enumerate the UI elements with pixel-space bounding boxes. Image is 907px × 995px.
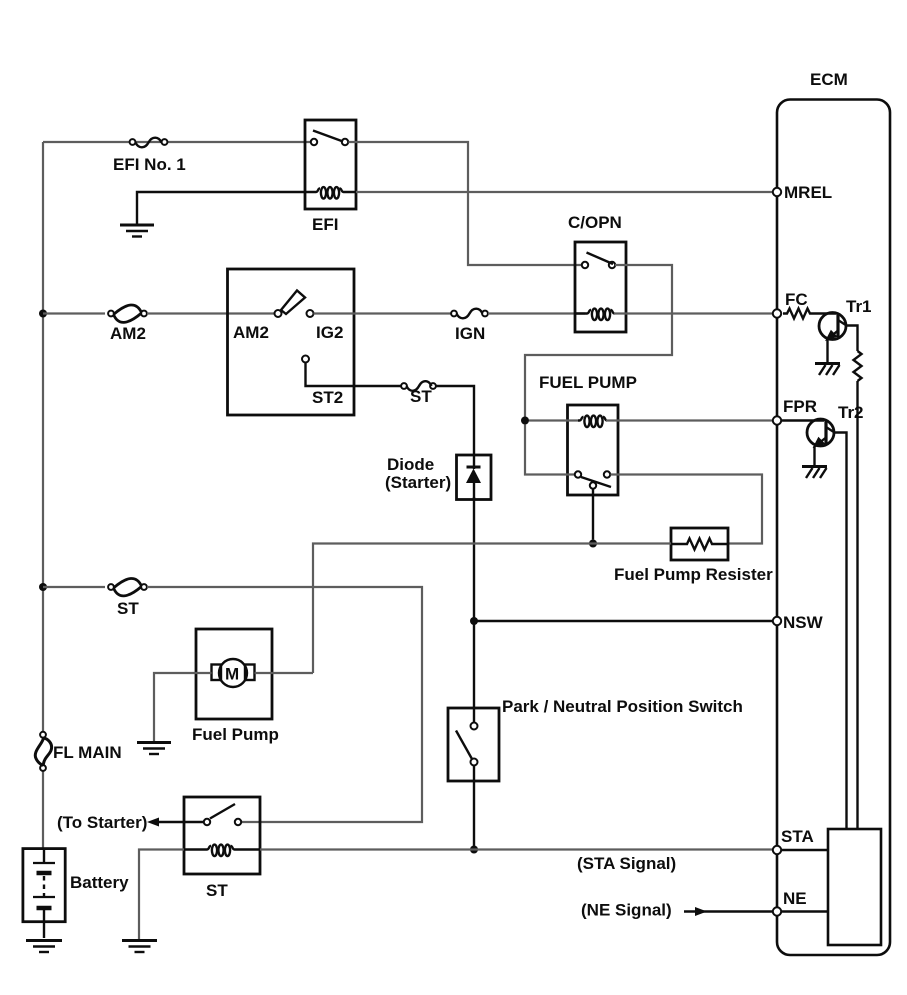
wire feed down to FUEL PUMP switch <box>525 425 574 475</box>
svg-text:FUEL PUMP: FUEL PUMP <box>539 373 637 392</box>
wire resistor down to sub-module <box>856 381 858 829</box>
fuse IGN <box>451 309 488 319</box>
svg-text:IG2: IG2 <box>316 323 343 342</box>
wire Tr2 collector to sub-module <box>834 433 847 830</box>
wire left battery bus vertical (upper part) <box>42 142 44 732</box>
fusible link ST <box>108 578 147 595</box>
svg-text:ST: ST <box>117 599 139 618</box>
wire ST2 contact to ST fuse <box>306 363 402 387</box>
relay FUEL PUMP switch <box>575 471 611 488</box>
svg-text:(Starter): (Starter) <box>385 473 451 492</box>
pin NE <box>773 907 781 915</box>
wire battery bus to ST fusible link <box>43 586 105 588</box>
wire AM2 fusible link to ignition switch <box>147 312 274 314</box>
pin NSW <box>773 617 781 625</box>
fuel pump box <box>196 629 272 719</box>
transistor Tr1 <box>819 313 847 340</box>
relay EFI box <box>305 120 356 209</box>
wire IGN fuse to C/OPN coil <box>488 312 585 314</box>
junction node on battery bus at AM2 line <box>39 310 47 318</box>
relay FUEL PUMP box <box>568 405 619 495</box>
svg-text:ST: ST <box>410 387 432 406</box>
wire C/OPN coil to FC pin <box>614 312 773 314</box>
svg-text:M: M <box>225 665 239 684</box>
ignition switch AM2 contact <box>275 310 282 317</box>
svg-text:FL MAIN: FL MAIN <box>53 743 122 762</box>
svg-text:(NE Signal): (NE Signal) <box>581 901 672 920</box>
svg-text:Fuel Pump Resister: Fuel Pump Resister <box>614 565 773 584</box>
transistor Tr2 <box>807 419 835 446</box>
svg-text:EFI No. 1: EFI No. 1 <box>113 155 186 174</box>
svg-text:IGN: IGN <box>455 324 485 343</box>
motor fuel pump circle <box>219 659 247 687</box>
wire NSW line <box>474 620 773 622</box>
switch Park/Neutral position box <box>448 708 499 781</box>
svg-text:Diode: Diode <box>387 455 434 474</box>
svg-text:(STA Signal): (STA Signal) <box>577 854 676 873</box>
pin FC <box>773 309 781 317</box>
svg-text:Fuel Pump: Fuel Pump <box>192 725 279 744</box>
wire EFI coil to ground <box>137 192 305 224</box>
wire resistor line to fuel pump motor <box>313 544 671 674</box>
wire STA pin to sub-module <box>782 849 829 851</box>
relay C/OPN coil <box>575 309 615 320</box>
wire EFI switch to C/OPN switch <box>349 142 582 265</box>
junction node STA line <box>470 846 478 854</box>
wire IG2 to IGN fuse <box>314 312 452 314</box>
resistor Tr1 collector <box>854 351 862 381</box>
svg-text:ECM: ECM <box>810 70 848 89</box>
wire left battery bus vertical (lower part) <box>42 771 44 850</box>
ground battery <box>26 941 62 953</box>
relay EFI switch <box>311 131 348 146</box>
junction node fuel pump resistor line <box>589 540 597 548</box>
svg-text:AM2: AM2 <box>233 323 269 342</box>
ignition switch IG2 contact <box>307 310 314 317</box>
svg-text:FC: FC <box>785 290 808 309</box>
wire NE pin to sub-module <box>782 910 829 912</box>
svg-text:Park / Neutral Position Switch: Park / Neutral Position Switch <box>502 697 743 716</box>
wire FUEL PUMP switch NO contact to resistor right side <box>611 475 763 544</box>
svg-text:ST: ST <box>206 881 228 900</box>
wire fuel pump motor to resistor line <box>255 672 314 674</box>
ground Tr2 (slash style) <box>802 467 827 479</box>
diode (Starter) box <box>457 455 492 500</box>
svg-text:FPR: FPR <box>783 397 817 416</box>
ignition switch lever <box>281 291 305 315</box>
wire EFI coil to MREL pin <box>356 191 773 193</box>
svg-text:(To Starter): (To Starter) <box>57 813 147 832</box>
svg-text:STA: STA <box>781 827 814 846</box>
fusible link AM2 <box>108 305 147 322</box>
wire FPR pin to Tr2 base <box>782 419 825 421</box>
svg-text:MREL: MREL <box>784 183 832 202</box>
wire ST fuse to diode <box>436 386 474 454</box>
junction node on battery bus at ST line <box>39 583 47 591</box>
ground EFI relay coil <box>120 225 154 237</box>
junction node FUEL PUMP coil feed <box>521 417 529 425</box>
sub-module box inside ECM <box>828 829 881 945</box>
svg-text:NSW: NSW <box>783 613 824 632</box>
wire battery bus to AM2 fusible link <box>43 312 105 314</box>
wire C/OPN switch to FUEL PUMP relay feed <box>525 265 672 417</box>
wire diode down to NSW node and P/N switch <box>473 497 475 723</box>
relay ST box <box>184 797 260 874</box>
ground ST relay coil <box>122 941 157 953</box>
wire Tr1 collector with resistor to sub-module <box>845 326 858 352</box>
svg-text:C/OPN: C/OPN <box>568 213 622 232</box>
wire/arrow NE signal to NE pin <box>684 907 773 916</box>
ground fuel pump <box>137 743 171 755</box>
ground Tr1 (slash style) <box>815 364 840 376</box>
wire top feed from battery bus to EFI relay <box>43 141 311 143</box>
motor fuel pump brushes <box>212 665 222 681</box>
wire FUEL PUMP coil to FPR pin <box>606 419 773 421</box>
wire ST relay coil to ground <box>139 850 184 940</box>
fusible link FL MAIN <box>35 732 51 771</box>
ignition switch box <box>228 269 355 415</box>
relay FUEL PUMP coil <box>578 416 607 427</box>
switch Park/Neutral contacts and blade <box>456 723 478 766</box>
fuse EFI No. 1 <box>130 138 168 148</box>
ignition switch ST2 contact <box>302 356 309 363</box>
junction node NSW line <box>470 617 478 625</box>
relay C/OPN switch <box>582 253 615 269</box>
relay ST coil <box>184 845 260 856</box>
diode (Starter) symbol <box>466 455 481 500</box>
relay ST switch <box>204 804 241 825</box>
resistor FC base <box>783 309 836 319</box>
pin STA <box>773 846 781 854</box>
pin MREL <box>773 188 781 196</box>
wire Tr1 emitter to ground <box>826 339 828 362</box>
battery box <box>23 849 65 922</box>
ECM box <box>777 100 890 956</box>
svg-text:Tr2: Tr2 <box>838 403 864 422</box>
svg-text:NE: NE <box>783 889 807 908</box>
fuse ST (ignition) <box>401 381 436 391</box>
resistor Fuel Pump Resister box <box>671 528 728 560</box>
battery plates <box>33 849 55 938</box>
svg-text:ST2: ST2 <box>312 388 343 407</box>
svg-text:AM2: AM2 <box>110 324 146 343</box>
wire FUEL PUMP switch common down to resistor line <box>592 489 594 540</box>
svg-text:Battery: Battery <box>70 873 129 892</box>
wire ST fusible link to ST relay switch <box>147 587 422 822</box>
wire Tr2 emitter to ground <box>813 446 815 465</box>
wire P/N switch down to STA line <box>473 766 475 850</box>
relay EFI coil <box>305 187 356 198</box>
relay C/OPN box <box>575 242 626 332</box>
wire feed to FUEL PUMP coil <box>529 419 578 421</box>
wire/arrow to starter <box>147 818 204 827</box>
resistor Fuel Pump Resister element <box>671 539 728 550</box>
wire ST relay coil to STA pin <box>260 848 773 850</box>
wire fuel pump to ground <box>154 673 212 741</box>
svg-text:EFI: EFI <box>312 215 338 234</box>
pin FPR <box>773 416 781 424</box>
svg-text:Tr1: Tr1 <box>846 297 872 316</box>
